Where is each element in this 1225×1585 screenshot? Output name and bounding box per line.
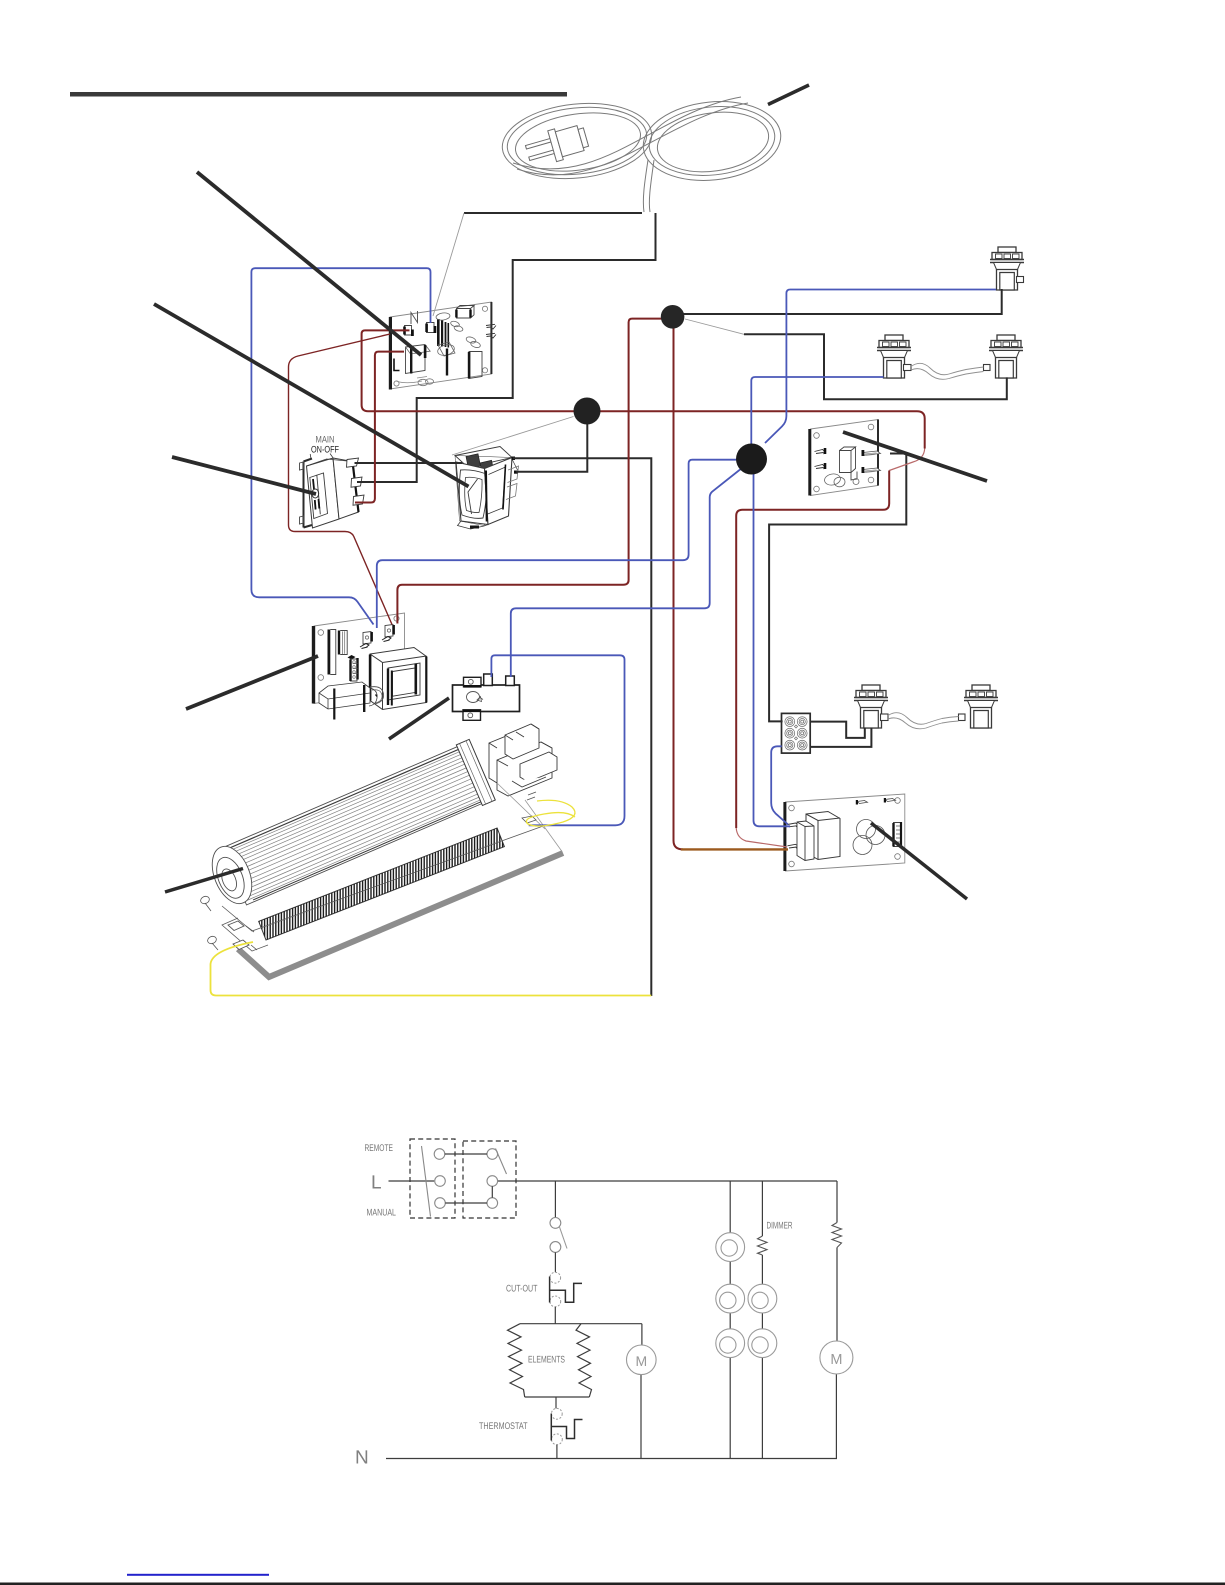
node N rail	[386, 1458, 837, 1460]
wire: dot1 tap (thin gray)	[685, 319, 744, 334]
wire: dot3 to cutout T2 (blue)	[511, 468, 742, 677]
wire: brown to dimmer T2	[681, 848, 788, 850]
PCB U1 power board	[389, 302, 496, 390]
cutout symbol	[550, 1272, 582, 1307]
remote-manual selector box 1	[410, 1139, 455, 1218]
junction dot2	[574, 398, 601, 425]
wire: cord to junction (black)	[357, 213, 656, 482]
motor terminals	[527, 792, 536, 800]
lamp holder B	[877, 335, 911, 378]
wire: dot1 to transformer T2 (dark red)	[397, 319, 672, 624]
wire: terminal block to lamp D second (black)	[810, 728, 872, 747]
wire: main switch T1 to lamp switch (black)	[355, 462, 463, 464]
plate support line	[525, 800, 562, 852]
motor M2	[820, 1341, 853, 1374]
terminal block	[782, 713, 811, 753]
wire: receiver T1 to terminal block (black)	[769, 454, 906, 722]
lamp holder E	[964, 685, 998, 728]
svg-text:M: M	[635, 1353, 647, 1369]
leader to main switch SW1	[172, 457, 316, 494]
lamp branch 2 with dimmer	[761, 1181, 763, 1459]
power cord plug	[523, 121, 590, 168]
wire: lamp switch T1 to heater yellow node (black)	[513, 458, 651, 996]
wire: cord tap to PCB1 (thin gray)	[433, 213, 464, 316]
heater tray outline	[222, 825, 546, 951]
power cord coil	[499, 95, 785, 212]
base plate gray band	[238, 853, 563, 977]
thermostat symbol	[551, 1408, 582, 1444]
motor M1	[627, 1345, 657, 1375]
wire: dimmer T2 lead-in (thin red)	[736, 828, 787, 847]
lamp L4	[748, 1284, 777, 1313]
fan branch resistor	[832, 1223, 842, 1248]
junction dot3	[736, 444, 767, 475]
wire: lamp switch T2 to junction dot2 (black)	[516, 420, 587, 472]
lamp L5	[748, 1329, 777, 1358]
lamp holder D	[854, 685, 888, 728]
wire thermostat to N	[556, 1445, 558, 1459]
wire: receiver red drop to T2 (thin red)	[889, 449, 925, 471]
wire: heater to yellow node (yellow)	[211, 942, 652, 996]
leader to receiver PCB	[843, 432, 987, 481]
footer rule	[0, 1583, 1225, 1585]
wire: PCB relay to dot2 to receiver (dark red)	[362, 330, 925, 448]
transformer PCB	[312, 613, 428, 720]
wavy wire D to E	[888, 713, 959, 729]
lamp A nipple	[1017, 277, 1024, 283]
wire: cutout T1 to fan motor (blue)	[491, 655, 624, 825]
lamp L1	[716, 1233, 745, 1262]
wire: dot3 to transformer T1 (blue)	[377, 460, 738, 628]
svg-text:M: M	[830, 1352, 842, 1368]
main on-off switch SW1	[300, 435, 365, 529]
selector contacts	[422, 1146, 507, 1217]
svg-text:THERMOSTAT: THERMOSTAT	[479, 1421, 528, 1432]
svg-text:DIMMER: DIMMER	[767, 1221, 793, 1232]
fan feet	[199, 895, 210, 905]
svg-text:MANUAL: MANUAL	[367, 1208, 397, 1219]
title rule bar	[70, 92, 567, 97]
fan end cap	[205, 841, 260, 910]
leader to lamp switch SW2	[154, 304, 469, 487]
junction dot1	[661, 305, 685, 329]
lamp B nipple	[904, 365, 912, 371]
svg-text:L: L	[371, 1173, 382, 1194]
svg-text:REMOTE: REMOTE	[365, 1143, 394, 1154]
wire: terminal block to dimmer T1 (blue)	[771, 746, 788, 824]
wire: dot2 tap to lamp switch (thin gray)	[452, 417, 574, 456]
wire: motor pigtail loop (yellow)	[526, 800, 575, 826]
wire: dot1 down to brown joint (dark red)	[674, 326, 684, 849]
motor housing	[489, 724, 557, 796]
leader to power cord	[768, 85, 809, 105]
leader to thermal cutout	[389, 698, 449, 739]
thermal cutout	[453, 674, 520, 720]
wire: dot1 to lamp A (black)	[680, 289, 1002, 314]
elements network	[508, 1324, 642, 1397]
wire: lamp A to dot3 (blue)	[765, 290, 996, 444]
footer link line	[127, 1574, 269, 1576]
leader to dimmer PCB	[871, 823, 967, 899]
switch branch drop	[554, 1181, 556, 1217]
wire: receiver T2 to dimmer PCB (dark red)	[736, 471, 889, 829]
wavy wire B to C	[911, 363, 984, 379]
lamp L2	[716, 1284, 745, 1313]
blower assembly	[199, 724, 563, 977]
fan barrel	[221, 739, 495, 906]
wire: PCB1 L to main switch T3 (dark red)	[355, 352, 404, 503]
dimmer PCB	[783, 794, 904, 871]
leader to blower	[165, 869, 243, 893]
wire to cutout	[554, 1252, 556, 1272]
lamp C nipple	[984, 365, 991, 371]
lamp holder A	[990, 247, 1024, 290]
dimmer resistor	[758, 1236, 768, 1255]
svg-text:N: N	[355, 1448, 369, 1469]
wire cutout to elements	[554, 1307, 556, 1324]
lamp holder C	[989, 335, 1023, 378]
lamp E nipple	[959, 714, 966, 721]
wire: lamp B to dot3 (blue)	[751, 377, 883, 447]
wire: dot3 to dimmer T1 (blue)	[754, 470, 791, 826]
leader to transformer PCB	[186, 656, 318, 709]
wire: PCB1 edge to transformer T2 (dark red)	[289, 334, 393, 625]
lamp branch 1	[729, 1181, 731, 1459]
fan motor branch	[835, 1181, 838, 1459]
svg-text:ELEMENTS: ELEMENTS	[528, 1355, 565, 1366]
selector links	[445, 1154, 493, 1203]
heater motor branch	[640, 1324, 643, 1459]
remote-manual selector box 2	[463, 1141, 516, 1218]
lamp dimmer switch SW2	[455, 447, 519, 530]
lamp L3	[716, 1329, 745, 1358]
wire elements to thermostat	[555, 1397, 557, 1408]
svg-text:ON-OFF: ON-OFF	[311, 445, 339, 456]
heater terminals	[228, 921, 249, 950]
wire: PCB1 N to transformer T1 (blue)	[251, 268, 430, 624]
svg-text:CUT-OUT: CUT-OUT	[506, 1284, 538, 1295]
receiver PCB	[808, 420, 880, 496]
wire: lamp C to dot1 stub (black)	[744, 334, 1007, 399]
wire: terminal block to lamp D (black)	[810, 722, 865, 738]
node L rail	[389, 1180, 435, 1182]
on-off switch symbol	[550, 1218, 567, 1253]
lamp D nipple	[881, 714, 889, 721]
leader to PCB U1	[197, 172, 421, 355]
